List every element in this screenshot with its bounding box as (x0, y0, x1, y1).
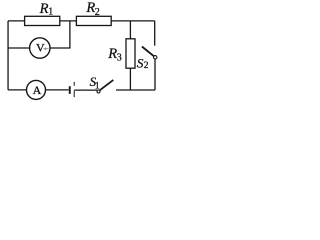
ammeter A (27, 80, 46, 99)
wire bottom left (8, 89, 69, 91)
wire R3 top lead (129, 21, 131, 39)
svg-text:3: 3 (117, 53, 122, 64)
switch S1 pivot circle (97, 90, 100, 93)
svg-text:A: A (33, 83, 42, 97)
wire left edge (7, 21, 9, 90)
wire voltmeter branch right (50, 21, 70, 48)
switch S2 pivot circle (154, 56, 157, 59)
svg-text:V: V (36, 40, 45, 54)
voltmeter V (30, 38, 50, 58)
battery cell: short thick plate (69, 86, 71, 94)
wire battery to S1 (74, 89, 97, 91)
wire top (8, 20, 155, 22)
svg-text:1: 1 (48, 7, 53, 18)
switch S1 blade (99, 80, 113, 91)
svg-text:2: 2 (144, 61, 149, 71)
svg-text:R: R (39, 1, 49, 17)
battery cell: long thin plate (upper segment) (74, 82, 75, 86)
voltmeter pointer arrow (gray) (43, 47, 49, 50)
switch S2 blade (142, 47, 154, 57)
svg-text:1: 1 (95, 81, 100, 91)
svg-text:2: 2 (95, 7, 100, 18)
wire right edge lower (S2 bottom lead) (154, 59, 156, 90)
resistor R2 (76, 16, 111, 25)
wire R3 bottom lead (129, 68, 131, 90)
resistor R1 (25, 16, 60, 25)
resistor R3 (126, 39, 135, 68)
wire bottom right of S1 (116, 89, 155, 91)
battery cell: long thin plate (lower segment) (74, 91, 75, 98)
wire voltmeter branch left (8, 47, 30, 49)
wire right edge upper (S2 top lead) (154, 21, 156, 46)
svg-text:R: R (107, 46, 117, 62)
